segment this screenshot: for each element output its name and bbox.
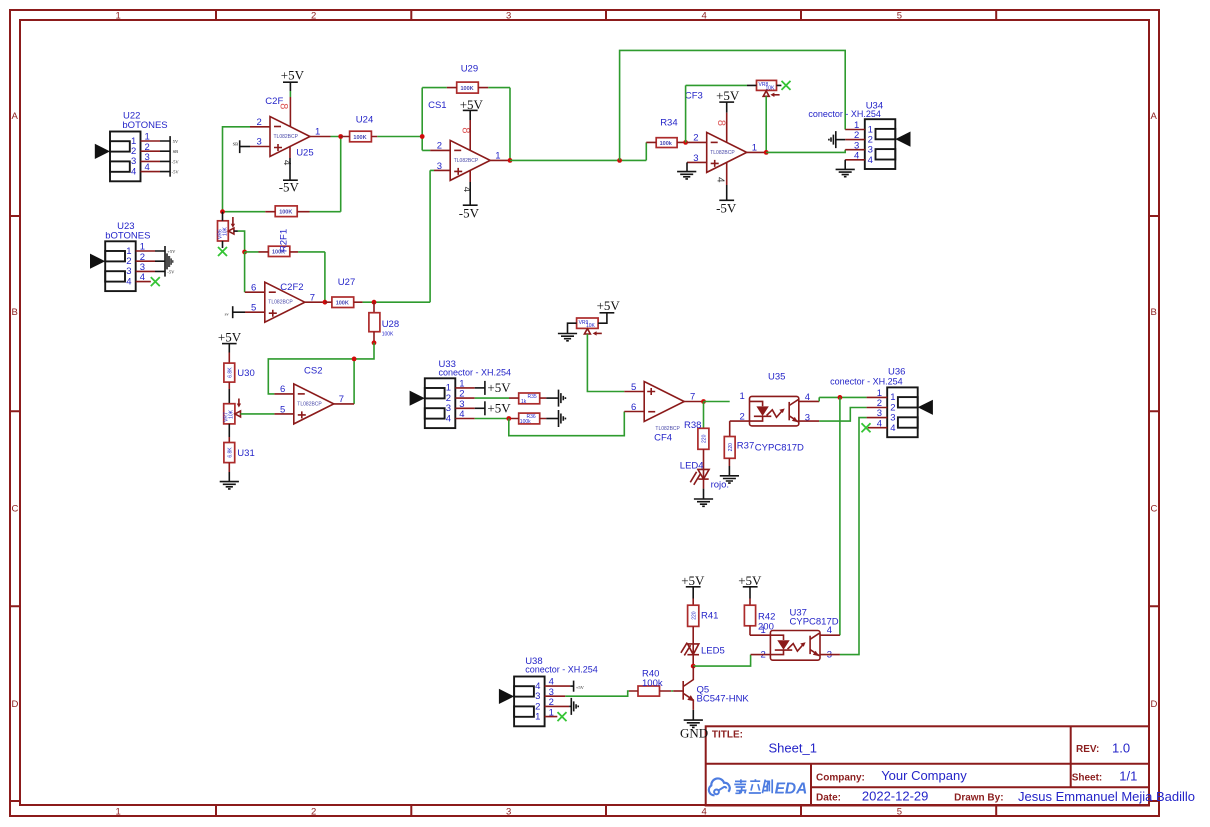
- wire VR8 left to CF3 pin2: [686, 85, 747, 142]
- svg-text:4: 4: [446, 413, 451, 424]
- svg-text:A: A: [1151, 111, 1158, 122]
- pin wires U23: [136, 251, 155, 282]
- pin wires U36: [867, 397, 888, 427]
- svg-text:+5V: +5V: [716, 88, 740, 103]
- resistor U31 6.8K: [224, 443, 235, 463]
- svg-text:CF4: CF4: [654, 432, 672, 443]
- svg-text:A: A: [12, 111, 19, 122]
- wire U33 pin2 to R35: [475, 397, 509, 399]
- svg-text:+5V: +5V: [681, 573, 705, 588]
- wire VR9 wiper to CF4 pin5: [587, 334, 624, 392]
- svg-text:B: B: [1151, 307, 1157, 318]
- svg-text:Drawn By:: Drawn By:: [954, 793, 1003, 804]
- svg-text:C2F2: C2F2: [280, 282, 303, 293]
- svg-text:4: 4: [868, 155, 873, 166]
- title block: [706, 726, 1195, 805]
- resistor U27 100K: [332, 297, 354, 308]
- svg-text:3: 3: [506, 11, 511, 22]
- wire U35 pin3 to U36 pin2: [819, 408, 866, 422]
- wire CS1 output run: [510, 142, 646, 160]
- junction R2F1 node: [242, 250, 247, 255]
- resistor R2F1 100K: [268, 246, 289, 256]
- svg-text:1: 1: [740, 391, 745, 402]
- pin wires U25: [250, 127, 331, 147]
- wire feedback right: [310, 137, 341, 212]
- svg-text:8: 8: [278, 103, 290, 109]
- resistor 100K U25 feedback: [275, 206, 297, 217]
- svg-text:BC547-HNK: BC547-HNK: [697, 694, 750, 705]
- svg-text:4: 4: [702, 807, 707, 818]
- resistor U30 6.8K: [224, 363, 235, 382]
- junction U33 pin4: [506, 416, 511, 421]
- svg-text:2022-12-29: 2022-12-29: [862, 789, 929, 804]
- optocoupler U35 CYPC817D: [740, 371, 811, 453]
- svg-text:+5V: +5V: [597, 298, 621, 313]
- net bus flag U23: [164, 246, 166, 277]
- svg-text:SB: SB: [233, 141, 239, 146]
- svg-text:1: 1: [535, 712, 540, 723]
- resistor R36 100k: [519, 413, 540, 424]
- svg-text:100K: 100K: [336, 301, 349, 307]
- svg-text:D: D: [1151, 699, 1158, 710]
- svg-text:GND: GND: [680, 725, 708, 740]
- svg-text:C: C: [12, 504, 19, 515]
- wire VR7 wiper to CS2 pin5: [241, 413, 275, 415]
- resistor R41 220: [688, 605, 699, 626]
- pin 8 wire U25: [289, 97, 291, 127]
- svg-text:+5V: +5V: [281, 68, 305, 83]
- connector U38 XH.254: [499, 656, 598, 726]
- svg-text:CS2: CS2: [304, 366, 322, 377]
- ground U31: [220, 482, 239, 489]
- connector U33 XH.254: [410, 359, 511, 428]
- junction top rail split: [617, 158, 622, 163]
- svg-text:U28: U28: [382, 319, 399, 330]
- potentiometer VR7: [224, 399, 241, 424]
- svg-text:D: D: [12, 699, 19, 710]
- svg-text:Company:: Company:: [816, 772, 865, 783]
- pin wires U22: [141, 141, 161, 172]
- junction U27 output: [372, 300, 377, 305]
- op-amp CF4: [644, 382, 684, 422]
- svg-text:LED5: LED5: [701, 646, 725, 657]
- svg-text:bOTONES: bOTONES: [105, 230, 150, 241]
- no-connect U23 pin4: [151, 277, 160, 286]
- svg-text:R2F1: R2F1: [279, 229, 290, 252]
- connector U34 XH.254: [808, 100, 910, 169]
- potentiometer VR9: [568, 313, 607, 336]
- wire U25 inverting input loop: [223, 127, 251, 212]
- svg-text:EDA: EDA: [775, 780, 808, 797]
- LED4: [703, 449, 705, 479]
- wire U24 to CS1: [377, 136, 422, 138]
- button symbol U23: [166, 253, 174, 269]
- svg-text:6.8K: 6.8K: [228, 367, 234, 378]
- SV net flag C2F2 pin5: [232, 306, 234, 318]
- svg-text:U29: U29: [461, 64, 478, 75]
- net bus flag U22: [169, 136, 171, 177]
- junction U25 output: [338, 134, 343, 139]
- svg-text:conector - XH.254: conector - XH.254: [830, 377, 903, 387]
- wire VR6 wiper: [238, 231, 245, 252]
- connector U22 bOTONES: [95, 111, 168, 182]
- wire U38 pin3 to R40: [565, 691, 629, 696]
- svg-text:-5V: -5V: [167, 269, 175, 274]
- no-connect VR6 bottom: [218, 247, 227, 256]
- wires R2F1: [245, 252, 325, 302]
- resistor U29 100K: [457, 82, 479, 93]
- pin wires U35: [730, 401, 820, 436]
- svg-text:5: 5: [897, 11, 902, 22]
- wire U35 pin4 to U36 pin1: [819, 397, 866, 401]
- no-connect U36 pin4: [862, 423, 871, 432]
- wire VR8 wiper down: [765, 96, 767, 152]
- wire top rail: [620, 50, 846, 160]
- svg-text:2: 2: [311, 807, 316, 818]
- svg-text:REV:: REV:: [1076, 744, 1099, 755]
- wire U36 pin3 long drop: [840, 418, 867, 655]
- svg-text:-5V: -5V: [279, 180, 300, 195]
- svg-text:Jesus Emmanuel Mejia Badillo: Jesus Emmanuel Mejia Badillo: [1018, 789, 1195, 804]
- svg-text:100k: 100k: [520, 419, 531, 425]
- svg-text:R41: R41: [701, 611, 718, 622]
- svg-text:Date:: Date:: [816, 793, 841, 804]
- wire R38 drop: [703, 402, 705, 429]
- svg-text:5: 5: [897, 807, 902, 818]
- svg-text:R38: R38: [684, 420, 701, 431]
- LED5: [692, 626, 694, 653]
- -5V power flag CF3: [726, 162, 728, 185]
- svg-text:+5V: +5V: [576, 685, 585, 690]
- svg-text:1: 1: [761, 625, 766, 636]
- wires CS1 feedback loop: [422, 88, 510, 161]
- resistor U24 100K: [350, 131, 372, 142]
- op-amp CS1: [450, 140, 490, 180]
- svg-text:8: 8: [715, 120, 727, 126]
- svg-text:Your Company: Your Company: [881, 768, 967, 783]
- svg-text:TL082BCP: TL082BCP: [655, 426, 680, 432]
- svg-text:Sheet_1: Sheet_1: [769, 740, 817, 755]
- svg-text:+5V: +5V: [487, 380, 511, 395]
- wire R40 to Q5 base: [671, 690, 673, 692]
- svg-text:10K: 10K: [766, 85, 776, 91]
- svg-text:4: 4: [702, 11, 707, 22]
- signal ground U34 pin2: [836, 139, 845, 141]
- svg-text:CYPC817D: CYPC817D: [755, 443, 804, 454]
- svg-text:1k: 1k: [521, 399, 527, 405]
- -5V power flag CS1: [469, 170, 471, 182]
- connector U36 XH.254: [830, 367, 933, 438]
- pin wires U37: [751, 635, 840, 654]
- wire CF3 output to U34: [766, 150, 845, 153]
- svg-text:+5V: +5V: [487, 400, 511, 415]
- svg-text:U31: U31: [237, 448, 254, 459]
- svg-text:4: 4: [890, 423, 895, 434]
- svg-text:+5V: +5V: [167, 249, 176, 254]
- junction CF3 input: [683, 140, 688, 145]
- ground R37: [728, 458, 730, 466]
- pin wires U33: [455, 388, 474, 419]
- svg-text:CS1: CS1: [428, 100, 446, 111]
- wire U33 pin4 to CF4 pin6: [509, 412, 625, 436]
- transistor Q5 BC547-HNK: [673, 666, 749, 710]
- op-amp C2F2: [265, 282, 305, 322]
- svg-text:C: C: [1151, 504, 1158, 515]
- svg-text:100k: 100k: [660, 141, 673, 147]
- +5V net flag U33 pin3: [475, 407, 485, 409]
- svg-text:conector - XH.254: conector - XH.254: [808, 109, 881, 119]
- junction C2F2 output: [323, 300, 328, 305]
- svg-text:conector - XH.254: conector - XH.254: [525, 664, 598, 674]
- svg-text:U24: U24: [356, 114, 373, 125]
- resistor R37 220: [724, 437, 735, 459]
- svg-text:U25: U25: [296, 147, 313, 158]
- svg-text:Sheet:: Sheet:: [1072, 772, 1103, 783]
- junction CF4 output: [701, 399, 706, 404]
- signal ground R35: [546, 397, 558, 399]
- svg-text:3: 3: [506, 807, 511, 818]
- svg-text:1.0: 1.0: [1112, 740, 1130, 755]
- svg-text:+5V: +5V: [738, 573, 762, 588]
- wires CS2 feedback node: [268, 343, 374, 404]
- svg-text:+5V: +5V: [218, 330, 242, 345]
- op-amp U25 C2F: [270, 117, 310, 157]
- svg-text:TITLE:: TITLE:: [712, 730, 743, 741]
- svg-text:U35: U35: [768, 371, 785, 382]
- svg-text:U27: U27: [338, 277, 355, 288]
- wire CF4 output to U35: [704, 401, 730, 403]
- svg-text:2: 2: [311, 11, 316, 22]
- svg-text:100K: 100K: [461, 86, 474, 92]
- JLCEDA logo: [709, 778, 730, 795]
- resistor R40 100k: [638, 686, 660, 696]
- resistor U28 100K: [373, 302, 375, 313]
- svg-text:5V: 5V: [173, 139, 179, 144]
- svg-text:CF3: CF3: [685, 90, 703, 101]
- wire node to U37 pin2: [693, 655, 750, 667]
- svg-text:SB: SB: [173, 149, 179, 154]
- svg-text:B: B: [12, 307, 18, 318]
- junction U25 feedback left: [220, 209, 225, 214]
- svg-text:-5V: -5V: [172, 159, 180, 164]
- svg-text:1: 1: [116, 807, 121, 818]
- svg-text:conector - XH.254: conector - XH.254: [439, 368, 512, 378]
- svg-text:R34: R34: [660, 117, 677, 128]
- ground U34 pin4: [844, 160, 846, 170]
- junction CS1 output: [508, 158, 513, 163]
- junction CS2 feedback: [352, 357, 357, 362]
- svg-text:220: 220: [691, 611, 697, 620]
- ground VR9: [558, 334, 577, 341]
- resistor R42: [744, 605, 755, 626]
- svg-text:4: 4: [715, 177, 726, 183]
- svg-text:U30: U30: [237, 368, 254, 379]
- svg-text:100K: 100K: [353, 135, 366, 141]
- junction CS1 input: [420, 134, 425, 139]
- +5V net flag U33 pin1: [475, 387, 485, 389]
- svg-text:6.8K: 6.8K: [228, 447, 234, 458]
- svg-text:R37: R37: [737, 441, 754, 452]
- potentiometer VR8: [747, 80, 781, 97]
- svg-text:-5V: -5V: [459, 205, 480, 220]
- connector U23 bOTONES: [90, 221, 150, 291]
- svg-text:1/1: 1/1: [1119, 768, 1137, 783]
- wire U33 pin4 node: [475, 418, 511, 420]
- svg-text:4: 4: [126, 276, 131, 287]
- svg-text:100k: 100k: [642, 678, 663, 689]
- junction Q5 collector node: [691, 664, 696, 669]
- svg-text:-5V: -5V: [172, 170, 180, 175]
- junction U36 pin1 node: [838, 395, 843, 400]
- SB net flag U25 pin3: [239, 140, 241, 153]
- svg-text:-5V: -5V: [716, 200, 737, 215]
- svg-text:sv: sv: [225, 311, 230, 316]
- wire to feedback resistor: [223, 211, 266, 213]
- signal ground U38 pin2: [569, 705, 571, 707]
- resistor R34 100k: [656, 138, 677, 148]
- pin 4 wire and -5V flag U25: [289, 147, 291, 159]
- no-connect U38 pin1: [558, 712, 567, 721]
- resistor R38 220: [698, 428, 709, 449]
- svg-text:bOTONES: bOTONES: [122, 120, 167, 131]
- svg-text:100K: 100K: [382, 331, 394, 337]
- ground LED4: [703, 479, 705, 489]
- junction U28 bottom: [372, 340, 377, 345]
- optocoupler U37 CYPC817D: [761, 607, 839, 660]
- ground CF3 pin3: [686, 162, 688, 171]
- resistor R35 1k: [519, 393, 540, 404]
- potentiometer VR6: [218, 212, 238, 248]
- +5V net flag U38 pin4: [570, 685, 573, 687]
- op-amp CS2: [294, 384, 334, 424]
- signal ground R36: [546, 418, 558, 420]
- svg-text:100K: 100K: [279, 210, 292, 216]
- svg-text:220: 220: [728, 443, 734, 452]
- svg-text:4: 4: [827, 625, 832, 636]
- pin wires U34: [845, 130, 865, 160]
- wire U27 output node: [363, 170, 434, 302]
- svg-text:LED4: LED4: [680, 461, 704, 472]
- svg-text:R35: R35: [528, 394, 537, 400]
- ground Q5 GND: [692, 710, 694, 720]
- svg-text:1: 1: [116, 11, 121, 22]
- wire C2F2 inverting input: [244, 252, 246, 292]
- junction CF3 output: [764, 150, 769, 155]
- no-connect VR8 right: [782, 81, 791, 90]
- svg-text:4: 4: [131, 166, 136, 177]
- pin wires U38: [545, 686, 571, 717]
- wire U36 pin1 long drop: [839, 397, 841, 635]
- svg-text:220: 220: [702, 434, 708, 443]
